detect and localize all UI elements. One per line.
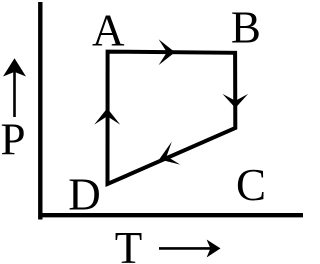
svg-text:T: T (115, 223, 143, 264)
svg-text:B: B (231, 2, 261, 52)
svg-text:A: A (92, 6, 125, 56)
svg-text:C: C (236, 160, 266, 210)
svg-text:P: P (1, 115, 26, 165)
svg-text:D: D (68, 170, 101, 220)
